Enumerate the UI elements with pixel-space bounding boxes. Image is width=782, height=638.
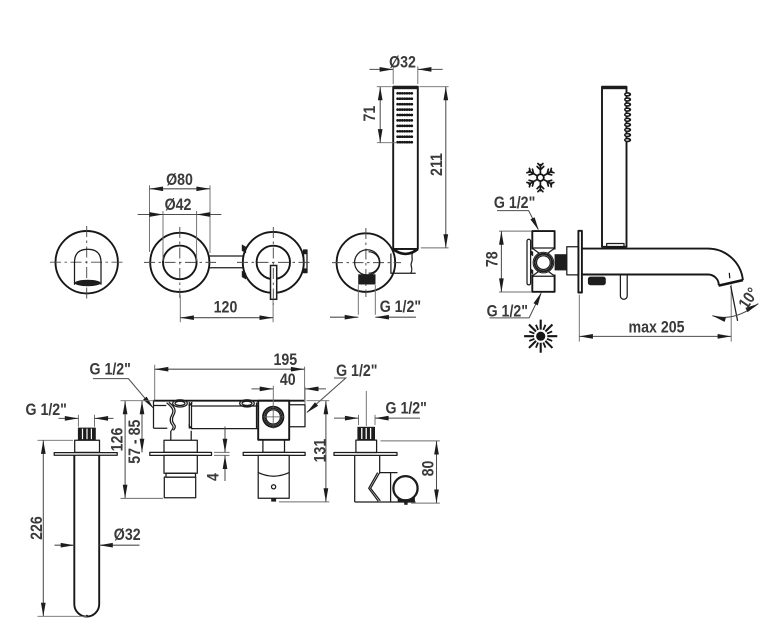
svg-text:71: 71 [361,105,379,121]
svg-text:126: 126 [108,428,126,452]
svg-text:Ø32: Ø32 [389,53,416,71]
svg-text:80: 80 [420,461,438,477]
svg-text:120: 120 [214,298,238,316]
svg-text:Ø42: Ø42 [165,196,192,214]
svg-text:226: 226 [28,516,46,540]
svg-text:4: 4 [205,473,223,481]
svg-text:40: 40 [280,371,296,389]
svg-text:G 1/2": G 1/2" [494,194,535,212]
svg-text:Ø32: Ø32 [114,526,141,544]
svg-text:131: 131 [311,438,329,462]
svg-text:G 1/2": G 1/2" [487,303,528,321]
svg-text:78: 78 [483,251,501,267]
svg-text:G 1/2": G 1/2" [380,298,421,316]
svg-text:57 - 85: 57 - 85 [126,419,144,464]
svg-text:G 1/2": G 1/2" [336,362,377,380]
svg-text:G 1/2": G 1/2" [385,399,426,417]
svg-text:Ø80: Ø80 [166,171,193,189]
svg-text:max 205: max 205 [629,318,685,336]
svg-text:G 1/2": G 1/2" [89,360,130,378]
svg-text:211: 211 [428,153,446,176]
svg-text:G 1/2": G 1/2" [25,401,66,419]
svg-text:195: 195 [273,351,297,369]
